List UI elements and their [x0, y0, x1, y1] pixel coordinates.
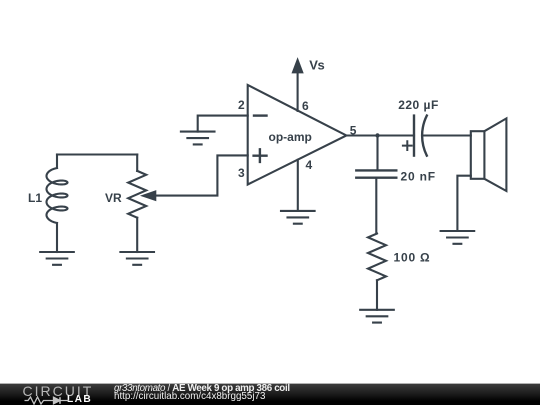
Vs supply arrow	[292, 59, 303, 73]
wire node5 down to C2	[376, 136, 378, 171]
svg-text:5: 5	[350, 123, 357, 137]
circuitlab logo wordmark CIRCUIT	[23, 384, 94, 398]
ground at pin 4	[281, 211, 315, 224]
speaker SPK1 cone	[484, 118, 506, 191]
svg-text:2: 2	[238, 98, 245, 112]
attribution line 1	[114, 384, 290, 394]
capacitor C1 220uF curved plate	[422, 116, 427, 156]
svg-text:3: 3	[238, 166, 245, 180]
op-amp U1 minus input marker	[254, 114, 267, 116]
ground at L1	[40, 252, 74, 265]
node junction dot	[375, 133, 379, 137]
capacitor C1 220uF left plate	[413, 116, 415, 156]
wire VR top lead	[136, 155, 138, 171]
ground at speaker	[441, 231, 475, 244]
wire top rail L1 to VR	[57, 153, 137, 155]
wire C2 to R1	[375, 178, 377, 234]
speaker SPK1 body	[471, 131, 485, 179]
wire node5 output	[346, 134, 414, 136]
svg-text:220 µF: 220 µF	[398, 98, 439, 112]
wire R1 to ground	[376, 280, 378, 310]
wire cap to speaker	[424, 134, 471, 136]
svg-text:VR: VR	[105, 191, 122, 205]
circuitlab logo LAB	[67, 395, 92, 405]
VR wiper arrowhead	[142, 191, 156, 201]
svg-text:20 nF: 20 nF	[401, 170, 436, 184]
ground at pin 2	[181, 132, 215, 145]
wire L1 bottom lead	[56, 223, 58, 252]
ground at VR	[120, 252, 154, 265]
svg-text:100 Ω: 100 Ω	[394, 251, 431, 265]
svg-text:Vs: Vs	[309, 58, 324, 73]
wire pin4 to ground	[297, 160, 299, 211]
potentiometer VR zigzag	[128, 171, 146, 218]
capacitor C1 plus polarity mark	[403, 141, 412, 150]
svg-text:op-amp: op-amp	[269, 130, 312, 144]
circuitlab logo resistor-diode glyph	[24, 395, 70, 405]
ground at R1	[360, 310, 394, 323]
wire L1 top lead	[56, 155, 58, 169]
footer attribution bar	[0, 383, 540, 405]
resistor R1 100ohm	[368, 234, 386, 281]
op-amp U1	[248, 85, 347, 185]
inductor L1 coil	[47, 168, 68, 223]
svg-text:6: 6	[302, 99, 309, 113]
wire pin6 Vs supply	[297, 72, 299, 111]
wire speaker to ground	[457, 176, 470, 231]
capacitor C2 20nF	[356, 170, 396, 177]
op-amp U1 plus input marker	[254, 149, 267, 162]
wire VR bottom lead	[136, 218, 138, 252]
svg-text:L1: L1	[28, 191, 42, 205]
wire pin2 to ground	[198, 116, 248, 132]
svg-text:4: 4	[306, 158, 313, 172]
attribution line 2	[114, 392, 265, 402]
wire pin3 to VR wiper	[156, 155, 248, 195]
